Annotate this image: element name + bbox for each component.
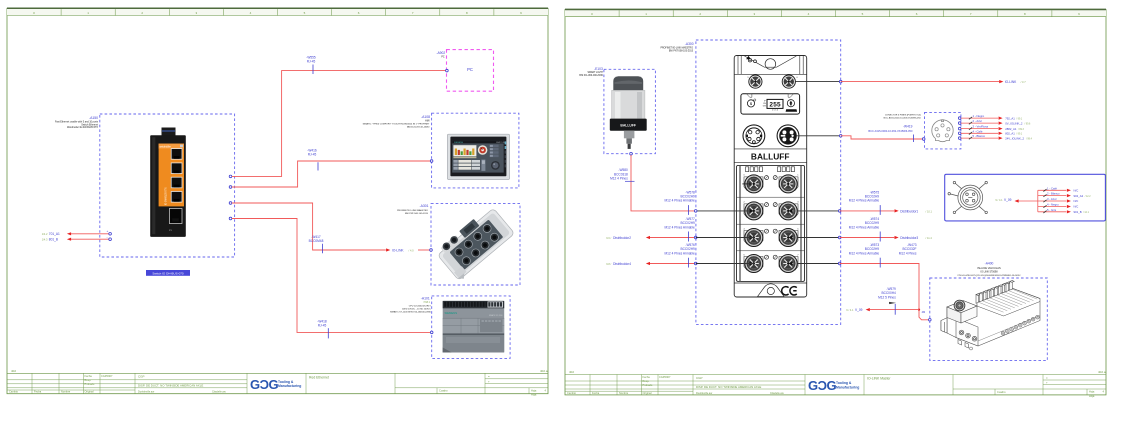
svg-text:Probado: Probado [85,382,95,386]
row3 left wire Distribuidor2 [606,236,631,240]
switch name plate label [146,270,190,276]
svg-text:CGP0907: CGP0907 [659,375,671,379]
PLC photo [443,301,505,353]
svg-text:CGP0907: CGP0907 [101,374,113,378]
ruler band [7,8,548,15]
svg-text:6AV2124-0GC01-0AX0: 6AV2124-0GC01-0AX0 [407,126,430,129]
power connector left (M12 male) [743,125,765,147]
row4 left wire Distribuidor4 [606,262,631,266]
wire IO-LINK top [795,81,840,83]
wire W416 switch to HMI [232,161,432,187]
svg-text:/ 99.3: / 99.3 [1018,129,1024,131]
junction dot [918,309,920,311]
svg-text:Manufacturing: Manufacturing [278,384,301,388]
svg-text:N/C: N/C [1074,205,1079,209]
svg-text:+: + [107,229,109,233]
pin wire 3 - Ver/Rosa [958,125,1024,131]
M12 port row 2 left [745,202,763,220]
svg-text:/ 99.6: / 99.6 [1025,123,1031,125]
label W417 [309,235,324,243]
PLC box dashed [432,296,510,359]
label W580 [610,168,628,180]
svg-text:Distribuidor2: Distribuidor2 [613,236,631,240]
svg-text:RJ-45: RJ-45 [307,60,316,64]
V_09 entry wire [995,198,1011,202]
svg-text:/ 12.2: / 12.2 [1085,196,1091,198]
label W419 [868,125,913,133]
svg-text:24V_IOLINK_2: 24V_IOLINK_2 [1005,136,1024,140]
label W577 [665,217,696,229]
svg-text:DISP. DE DUCT. NO TWINSIDE AME: DISP. DE DUCT. NO TWINSIDE AMERICAN AXLE [138,384,203,388]
port entry arrows [750,209,793,265]
label W573 [849,243,880,255]
svg-text:BNI IOL-800-000-Z036: BNI IOL-800-000-Z036 [579,75,603,77]
title block grid [565,374,1106,376]
svg-text:2 5 5 0: 2 5 5 0 [772,110,779,112]
5-pin connector dashed box [925,112,961,148]
svg-text:M12 4 Pines Armable: M12 4 Pines Armable [849,225,880,229]
svg-text:Nombre: Nombre [619,391,629,395]
svg-text:IO LINK 575698: IO LINK 575698 [980,271,998,274]
label W576 [665,243,696,255]
M12 port row 3 left [745,229,763,247]
svg-text:Cuadro: Cuadro [997,390,1006,394]
svg-text:4 - Negro: 4 - Negro [1047,203,1059,207]
svg-text:Manufacturing: Manufacturing [836,385,859,389]
wire W417 switch to IO-Link [232,203,386,250]
svg-text:/ 10.1: / 10.1 [926,209,933,213]
port row 2 flanges [744,204,798,218]
svg-text:CONECTOR 5 PINES (PUERTO S4): CONECTOR 5 PINES (PUERTO S4) [885,115,921,117]
valve island labels [957,261,1021,276]
module top cap [734,56,807,75]
label A150 [55,116,99,129]
svg-text:M12 4 Pines Armable: M12 4 Pines Armable [665,199,696,203]
label W416 [307,149,317,157]
svg-text:SIMATIC S7-1200 6ES7214-1AG40-: SIMATIC S7-1200 6ES7214-1AG40-0XB0 [390,311,432,314]
wire W580 smart light to module [631,155,696,211]
svg-text:Resp.: Resp. [85,378,92,382]
smart light box dashed [604,69,656,153]
valve pin wire 1 - Café [1038,186,1079,192]
svg-text:2882_A1: 2882_A1 [1005,127,1017,131]
svg-text:Hoja: Hoja [531,393,537,397]
valve pin wire 5 - Gris [1038,208,1090,214]
svg-text:-E103: -E103 [594,67,603,71]
svg-text:Distribuidor4: Distribuidor4 [613,262,631,266]
svg-text:9 / 4.1: 9 / 4.1 [995,198,1003,202]
balluff module body outline [734,56,807,298]
svg-text:Citadelle.aw: Citadelle.aw [212,391,226,394]
svg-text:402: 402 [569,370,574,374]
ruler band [565,10,1106,17]
label A101 [390,297,432,314]
svg-text:RJ-45: RJ-45 [308,153,317,157]
svg-text:402: 402 [11,369,16,373]
svg-text:Duebleville.aw: Duebleville.aw [138,391,154,394]
svg-text:-A400: -A400 [985,261,994,265]
valve island knob connector [954,300,965,311]
port row 4 flanges [744,257,798,271]
LED pair row 1 [765,176,769,180]
svg-text:402.a: 402.a [1098,370,1106,374]
smart light photo [610,76,647,149]
svg-text:/HMI.1: /HMI.1 [423,302,430,304]
svg-text:IE-SW-BL05-5TX: IE-SW-BL05-5TX [166,187,168,205]
svg-text:1 - Negro: 1 - Negro [973,114,985,118]
svg-text:Hoja: Hoja [1089,390,1095,394]
label W579 [878,287,896,299]
IO-LINK net label right [1005,80,1026,84]
valve pin wire 3 - Azul [1038,197,1079,203]
svg-text:1/4.3: 1/4.3 [42,238,48,242]
svg-text:801_B: 801_B [49,238,58,242]
label E103 [579,67,603,77]
svg-text:/ 99.1: / 99.1 [1016,134,1022,136]
svg-text:VTUG-10-VRLK-B1T-Q12L-UR-Q6S-8: VTUG-10-VRLK-B1T-Q12L-UR-Q6S-8GRW-EX6LR-… [957,275,1021,277]
svg-text:GW: GW [763,106,766,108]
port row 1 flanges [744,177,798,191]
svg-text:Nombre: Nombre [61,390,71,394]
svg-text:-A108: -A108 [421,115,430,119]
svg-text:GƆG: GƆG [808,378,837,393]
port row 3 flanges [744,231,798,245]
svg-text:Fecha: Fecha [592,391,600,395]
svg-text:weidmüller: weidmüller [160,146,172,149]
svg-text:M12 4 Pines: M12 4 Pines [899,251,917,255]
svg-text:IO-LINK: IO-LINK [392,249,404,253]
svg-text:CGP: CGP [138,375,145,379]
svg-text:BCC A315-0000-10-063-VX45W6-05: BCC A315-0000-10-063-VX45W6-050 [884,117,922,120]
svg-text:Red Ethernet: Red Ethernet [309,375,329,379]
svg-text:CGP: CGP [696,376,703,380]
svg-text:Distribuidor1: Distribuidor1 [900,209,918,213]
svg-text:V_09: V_09 [855,308,863,312]
module top icons [746,56,756,63]
M12 port row 1 right [779,175,797,193]
pin wire 1 - Negro [958,114,1022,120]
svg-text:CPU 1214 AC/DC/RLY: CPU 1214 AC/DC/RLY [409,305,432,308]
svg-text:3 - Azul: 3 - Azul [1047,197,1057,201]
M12 face in blue box [948,181,987,213]
svg-text:-A301: -A301 [419,204,428,208]
label HMI [363,115,431,129]
IOLink(photo) box dashed [431,203,520,285]
switch A150 enclosure dashed box [100,114,235,257]
lower section top vents [746,167,795,172]
svg-text:255: 255 [769,102,781,109]
svg-text:2 - Azul: 2 - Azul [973,119,983,123]
svg-text:SIMATIC "TP900 COMFORT" TOUCH: SIMATIC "TP900 COMFORT" TOUCH HD29Z0004 … [363,123,430,126]
row2 right wire Distribuidor1 [797,210,840,212]
page frame border [7,8,548,393]
top M12 port left [748,75,763,88]
IO-LINK net label [392,249,414,253]
svg-text:9.8 /: 9.8 / [606,262,611,266]
svg-text:14ED 24VDC - 10 SD 24VDC: 14ED 24VDC - 10 SD 24VDC [402,309,431,311]
svg-text:GƆG: GƆG [250,377,279,392]
M12 port row 4 right [779,255,797,273]
svg-text:M12 4 Pines: M12 4 Pines [610,177,628,181]
svg-text:ISLA DE VALVULAS: ISLA DE VALVULAS [977,266,1001,270]
svg-text:V_09: V_09 [1004,198,1012,202]
switch power terminals [42,232,60,241]
branch wire V_09 [870,309,919,311]
svg-text:Distribuidor3: Distribuidor3 [900,236,918,240]
solid blue connector box [945,174,1106,221]
svg-text:PC: PC [467,67,473,72]
label A300 [660,42,693,53]
svg-text:N/C: N/C [1074,189,1079,193]
page frame border [565,10,1106,395]
svg-text:Cambio: Cambio [9,390,18,394]
svg-text:-W419: -W419 [903,125,913,129]
valve island isometric drawing [941,281,1040,350]
svg-text:902_A2: 902_A2 [1074,194,1084,198]
svg-text:-A150: -A150 [89,116,98,120]
label W418 [317,319,327,327]
svg-text:IO-LINK Master: IO-LINK Master [867,377,891,381]
svg-text:BNI PNT-508-105-Z015: BNI PNT-508-105-Z015 [669,51,694,53]
label W473 [899,243,917,255]
svg-text:-A101: -A101 [421,297,430,301]
pin wire 2 - Azul [958,119,1031,125]
M12 port row 1 left [745,175,763,193]
smart light connection node [630,152,633,155]
PC box (magenta dashed) [447,50,494,92]
svg-text:M12 4 Pines Armable: M12 4 Pines Armable [665,251,696,255]
pin wire 4 - Café [958,129,1022,135]
module internal wire row2 left [696,210,754,212]
ethernet switch Q1 (photo) [150,128,186,237]
display panel [741,94,800,114]
svg-text:9.6 /: 9.6 / [606,236,611,240]
svg-text:Hoja: Hoja [531,388,537,392]
svg-text:Switch IO DH-BUS-070: Switch IO DH-BUS-070 [152,271,184,275]
conector 5 pines text [884,115,922,120]
valve pin wire 2 - Blanco [1038,192,1091,198]
svg-text:4 - Café: 4 - Café [973,129,983,133]
svg-text:9 / 4.1: 9 / 4.1 [846,308,854,312]
svg-text:4M: 4M [922,310,926,314]
svg-text:/ 11.4: / 11.4 [926,236,933,240]
LED pair row 2 [765,203,769,207]
svg-text:Fecha: Fecha [34,390,42,394]
LED pair row 3 [765,229,769,233]
svg-text:/ 99.4: / 99.4 [1026,138,1032,140]
module internal wire row1 stub arrow [742,183,750,185]
svg-text:/ 3.7: / 3.7 [1021,80,1027,84]
svg-text:/ 12.1: / 12.1 [1083,212,1089,214]
svg-text:901_B: 901_B [1074,210,1082,214]
svg-text:402.a: 402.a [540,369,548,373]
svg-text:SMART LIGHT: SMART LIGHT [587,71,603,74]
svg-text:3 - Ver/Rosa: 3 - Ver/Rosa [973,125,989,129]
svg-text:0V_IOLINK_2: 0V_IOLINK_2 [1005,121,1023,125]
valve pin wire 4 - Negro [1038,203,1079,209]
M12 port row 3 right [779,229,797,247]
svg-text:SIMATIC S7-1200: SIMATIC S7-1200 [489,314,503,317]
svg-text:/ 4.0: / 4.0 [409,249,415,253]
svg-text:-A300: -A300 [685,42,694,46]
module lower section frame [737,165,805,281]
svg-text:5 - Blanco: 5 - Blanco [973,134,986,138]
svg-text:Cuadro: Cuadro [439,389,448,393]
svg-text:BCC0M48: BCC0M48 [309,239,324,243]
pin wire 5 - Blanco [958,134,1032,140]
svg-text:1 - Café: 1 - Café [1047,186,1057,190]
HMI panel photo [447,134,509,179]
svg-text:Weidmuller IE-SW-BL05-5TX: Weidmuller IE-SW-BL05-5TX [67,126,98,129]
valve island dashed box [930,278,1048,361]
LED pair row 4 [765,255,769,259]
top M12 port right [782,75,798,88]
IO-Link master module photo (tilted) [434,205,516,282]
CE mark [782,287,797,295]
svg-text:PROFINET/IO-LINK MAESTRO: PROFINET/IO-LINK MAESTRO [660,46,693,49]
svg-text:BALLUFF: BALLUFF [620,124,636,128]
switch port nodes [229,175,232,178]
label W578 [665,190,696,202]
svg-text:Hoja: Hoja [1089,394,1095,398]
svg-text:BNI PNT-508-105-Z015: BNI PNT-508-105-Z015 [405,213,429,215]
module A300 dashed box [696,40,841,324]
svg-text:/ 99.1: / 99.1 [1016,118,1022,120]
svg-text:5 - Gris: 5 - Gris [1047,208,1057,212]
svg-text:Fecha: Fecha [85,374,93,378]
svg-text:HMI: HMI [425,120,430,122]
svg-text:SIEMENS: SIEMENS [454,142,464,144]
svg-text:M12 4 Pines Armable: M12 4 Pines Armable [665,225,696,229]
label W574 [849,217,880,229]
BALLUFF logo text [734,149,807,163]
svg-text:Probado: Probado [643,383,653,387]
wire power connector to 5-pin connector [796,135,840,137]
svg-text:BALLUFF: BALLUFF [751,151,790,161]
power connector right (M12 female, black) [777,125,799,147]
svg-text:SIEMENS: SIEMENS [445,311,458,315]
svg-text:1/4.2: 1/4.2 [42,232,48,236]
svg-text:BCC A315-0000-10-063-VX45W6-05: BCC A315-0000-10-063-VX45W6-050 [868,129,913,133]
svg-text:Fecha: Fecha [643,375,651,379]
ladder rail [1037,190,1039,212]
svg-text:M12 4 Pines Armable: M12 4 Pines Armable [849,251,880,255]
M12 port row 4 left [745,255,763,273]
svg-text:PC: PC [441,57,445,59]
wire W555 switch to PC [232,71,447,177]
HMI box dashed [432,113,519,188]
svg-text:Citadelle.aw: Citadelle.aw [770,392,784,395]
svg-text:Resp.: Resp. [643,379,650,383]
svg-text:Cambio: Cambio [567,391,576,395]
svg-text:701_A1: 701_A1 [49,232,60,236]
svg-text:2 - Blanco: 2 - Blanco [1047,192,1060,196]
wire W418 switch to PLC [232,219,432,333]
svg-text:-: - [107,235,108,239]
label W555 [306,56,316,64]
svg-text:Original: Original [85,390,94,394]
M12 port row 2 right [779,202,797,220]
svg-text:RJ-45: RJ-45 [318,324,327,328]
row4 right wire to valve [797,263,840,265]
svg-text:M12 4 Pines Armable: M12 4 Pines Armable [849,199,880,203]
wire 701_A1 [67,232,71,235]
svg-text:DISP. DE DUCT. NO TWINSIDE AME: DISP. DE DUCT. NO TWINSIDE AMERICAN AXLE [696,385,761,389]
svg-text:M12 5 Pines: M12 5 Pines [878,295,896,299]
svg-text:Original: Original [643,391,652,395]
label PC box [436,51,445,59]
svg-text:N/C: N/C [1074,199,1079,203]
svg-text:PROFINET/IO-LINK MAESTRO: PROFINET/IO-LINK MAESTRO [397,209,428,212]
svg-text:IO-LINK: IO-LINK [1005,80,1017,84]
svg-text:792_A1: 792_A1 [1005,116,1015,120]
label A301 [397,204,429,215]
title block grid [7,372,548,374]
row3 right wire Distribuidor3 [797,237,840,239]
label W575 [849,190,880,202]
wire 801_B [67,238,71,241]
svg-text:802_A1: 802_A1 [1005,132,1015,136]
svg-text:-A902: -A902 [436,51,445,55]
svg-text:Duebleville.aw: Duebleville.aw [696,392,712,395]
module bottom cap [734,283,807,297]
5-pin connector face [932,120,953,142]
